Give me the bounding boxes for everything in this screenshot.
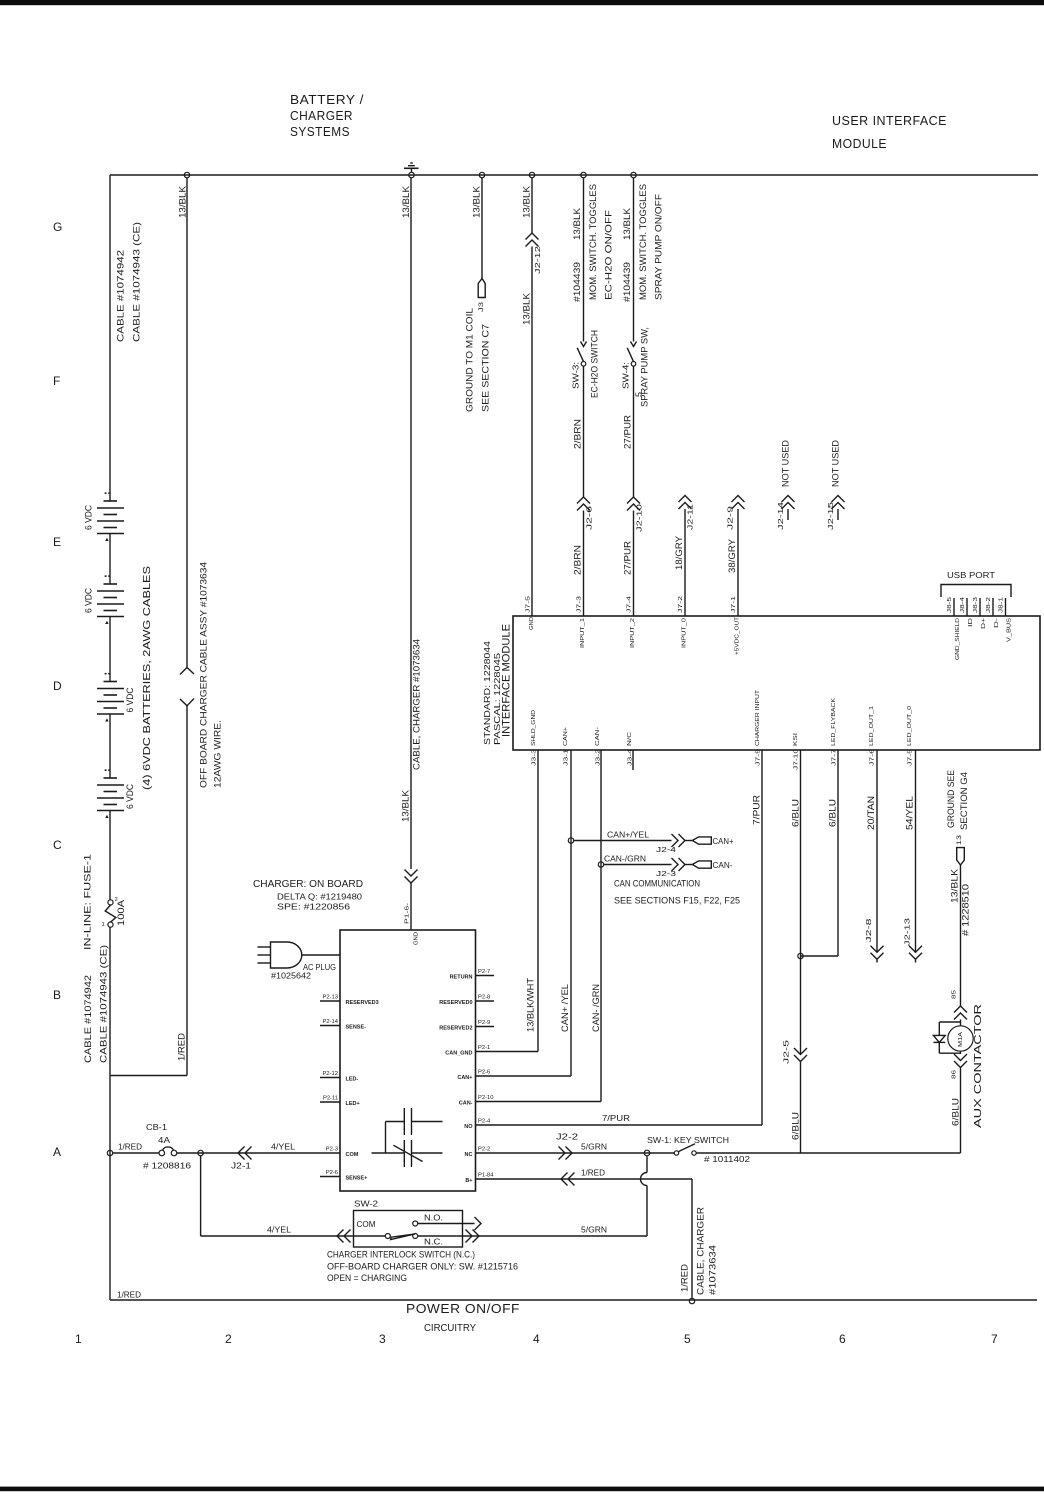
- svg-text:MOM. SWITCH. TOGGLES: MOM. SWITCH. TOGGLES: [588, 184, 598, 300]
- svg-text:GND_SHIELD: GND_SHIELD: [955, 618, 961, 660]
- svg-text:MOM. SWITCH. TOGGLES: MOM. SWITCH. TOGGLES: [638, 184, 648, 300]
- connector chevrons NC out: [466, 1230, 473, 1243]
- wire 20/TAN J7-6 to J2-8: [876, 750, 878, 952]
- connector chevrons J2-9: [732, 496, 745, 503]
- terminal CAN-: [692, 861, 711, 868]
- svg-text:4A: 4A: [158, 1135, 170, 1145]
- svg-text:J7-5: J7-5: [908, 749, 914, 766]
- svg-text:USER INTERFACE: USER INTERFACE: [832, 113, 947, 128]
- svg-text:5/GRN: 5/GRN: [581, 1225, 607, 1235]
- node bus junction x532: [529, 172, 534, 177]
- svg-text:6/BLU: 6/BLU: [791, 1112, 801, 1140]
- svg-text:6/BLU: 6/BLU: [828, 799, 838, 827]
- interface module U1 box: [513, 616, 1040, 750]
- svg-text:13/BLK: 13/BLK: [572, 208, 582, 240]
- wire 6/BLU J7-7 to junction: [837, 750, 839, 956]
- wire 5/GRN SW-2 NC to junction: [418, 1235, 647, 1237]
- svg-text:J2-8: J2-8: [864, 919, 873, 943]
- switch SW-4 fixed contact arrow: [631, 342, 637, 347]
- svg-text:E: E: [53, 535, 61, 549]
- svg-text:1: 1: [102, 922, 105, 928]
- svg-text:P2-8: P2-8: [478, 995, 490, 1001]
- svg-text:J7-2: J7-2: [678, 596, 684, 613]
- svg-text:13: 13: [956, 835, 963, 845]
- connector chevrons down J1 to charger: [405, 870, 418, 877]
- svg-text:2/BRN: 2/BRN: [573, 545, 583, 575]
- pin J8-4 ID: [966, 598, 968, 616]
- switch SW-1 key switch: [674, 1144, 696, 1155]
- wire 13/BLK bus to J2-12: [531, 178, 533, 233]
- svg-text:USB PORT: USB PORT: [947, 570, 995, 580]
- svg-text:NO: NO: [464, 1124, 473, 1130]
- switch SW-3 fixed contact arrow: [581, 342, 587, 347]
- svg-text:1/RED: 1/RED: [117, 1290, 141, 1300]
- svg-text:J2-12: J2-12: [533, 246, 542, 274]
- svg-text:P2-1: P2-1: [478, 1045, 490, 1051]
- svg-text:CAN- /GRN: CAN- /GRN: [591, 984, 601, 1032]
- battery BT3 6 VDC: [97, 673, 135, 722]
- svg-text:J7-4: J7-4: [627, 595, 633, 613]
- wire below switch SW-3: [583, 366, 585, 497]
- switch SW-4 blade: [627, 348, 633, 362]
- connector chevrons J2-3: [672, 858, 679, 871]
- svg-text:IN-LINE: FUSE-1: IN-LINE: FUSE-1: [83, 854, 93, 950]
- node CAN- tap junction: [598, 862, 603, 867]
- node terminal bottom frame: [689, 1298, 694, 1303]
- svg-text:RETURN: RETURN: [450, 975, 473, 981]
- svg-text:LED_OUT_1: LED_OUT_1: [869, 706, 875, 746]
- svg-text:RESERVED2: RESERVED2: [439, 1026, 472, 1032]
- connector chevrons J2-2: [559, 1147, 566, 1160]
- wire CAN+/YEL J3-1 to charger CAN+: [570, 750, 572, 1076]
- node bus junction x583.5: [581, 172, 586, 177]
- terminal CAN+: [692, 837, 711, 844]
- svg-text:# 1011402: # 1011402: [704, 1154, 750, 1164]
- wire 1/RED battery to CB-1: [113, 1152, 159, 1154]
- wire bottom frame: [110, 1299, 1037, 1301]
- svg-text:COM: COM: [357, 1219, 376, 1229]
- pin P2-14 SENSE-: [320, 1025, 340, 1027]
- svg-text:J2-14: J2-14: [776, 502, 785, 530]
- svg-text:INTERFACE MODULE: INTERFACE MODULE: [500, 624, 512, 737]
- svg-text:18/GRY: 18/GRY: [674, 536, 684, 570]
- wire 6/BLU J7-10 down: [800, 750, 802, 1055]
- wire 13/BLK drop to break: [186, 178, 188, 668]
- svg-text:CHARGER INTERLOCK SWITCH (N.C.: CHARGER INTERLOCK SWITCH (N.C.): [327, 1250, 475, 1260]
- svg-text:POWER ON/OFF: POWER ON/OFF: [406, 1301, 520, 1316]
- svg-text:J8-5: J8-5: [947, 597, 953, 613]
- svg-text:P2-11: P2-11: [323, 1096, 338, 1102]
- wire CAN- tap to terminal: [604, 864, 672, 866]
- wire 6/BLU contactor to key switch: [960, 1068, 962, 1154]
- svg-text:J8-1: J8-1: [999, 597, 1005, 613]
- wire CB-1 to charger COM: [177, 1152, 340, 1154]
- svg-text:#1025642: #1025642: [271, 972, 312, 981]
- svg-text:LED_OUT_0: LED_OUT_0: [907, 706, 913, 746]
- svg-text:CAN-/GRN: CAN-/GRN: [604, 853, 646, 863]
- svg-text:MODULE: MODULE: [832, 136, 887, 151]
- node bus junction x187: [184, 172, 189, 177]
- svg-text:RESERVED3: RESERVED3: [346, 1000, 379, 1006]
- svg-text:# 1208816: # 1208816: [143, 1161, 191, 1171]
- node junction 4/YEL drop: [198, 1150, 203, 1155]
- svg-text:13/BLK: 13/BLK: [622, 208, 632, 240]
- svg-text:#104439: #104439: [622, 262, 632, 302]
- svg-text:CIRCUITRY: CIRCUITRY: [424, 1323, 476, 1334]
- wire CAN+ tap to terminal: [574, 840, 672, 842]
- svg-text:P2-13: P2-13: [323, 995, 338, 1001]
- svg-text:CAN-: CAN-: [595, 727, 601, 746]
- svg-text:CAN+: CAN+: [563, 726, 569, 746]
- svg-text:CHARGER: CHARGER: [290, 108, 353, 123]
- svg-text:4/YEL: 4/YEL: [267, 1225, 291, 1235]
- fuse FUSE-1 100A in-line: [102, 897, 127, 928]
- svg-text:ID: ID: [968, 618, 974, 627]
- svg-text:13/BLK: 13/BLK: [522, 186, 532, 218]
- wire 1/RED charger B+ row: [476, 1178, 693, 1180]
- wire left frame / battery string: [109, 175, 111, 501]
- pin P2-11 LED+: [320, 1101, 340, 1103]
- svg-text:J3-3: J3-3: [532, 749, 538, 766]
- svg-text:13/BLK: 13/BLK: [950, 869, 960, 903]
- wire key switch to contactor: [696, 1152, 960, 1154]
- svg-text:DELTA Q: #1219480: DELTA Q: #1219480: [277, 892, 362, 902]
- svg-text:INPUT_2: INPUT_2: [630, 618, 636, 648]
- wire CAN-/GRN J3-2 to charger CAN-: [600, 750, 602, 1102]
- svg-text:J8-2: J8-2: [986, 597, 992, 613]
- connector chevrons pin 86: [960, 1051, 962, 1054]
- svg-text:6 VDC: 6 VDC: [125, 784, 135, 809]
- svg-text:27/PUR: 27/PUR: [623, 414, 633, 449]
- svg-text:J7-1: J7-1: [731, 596, 737, 613]
- svg-text:GROUND SEE: GROUND SEE: [946, 770, 956, 828]
- battery BT2 6 VDC: [84, 575, 124, 624]
- svg-text:J7-7: J7-7: [832, 749, 838, 766]
- circuit breaker CB-1 4A: [159, 1147, 177, 1156]
- svg-text:13/BLK: 13/BLK: [401, 186, 411, 218]
- wire 13/BLK bus to switch SW-4: [633, 178, 635, 342]
- svg-text:G: G: [53, 220, 62, 234]
- svg-text:27/PUR: 27/PUR: [623, 540, 633, 575]
- svg-text:A: A: [53, 1145, 61, 1159]
- node battery terminal A-row: [107, 1150, 112, 1155]
- svg-text:2/BRN: 2/BRN: [573, 419, 583, 449]
- svg-text:CAN+/YEL: CAN+/YEL: [607, 830, 649, 840]
- connector chevrons J2-11: [679, 496, 692, 503]
- svg-text:+5VDC_OUT: +5VDC_OUT: [735, 616, 741, 655]
- svg-text:12AWG WIRE.: 12AWG WIRE.: [213, 720, 223, 788]
- svg-text:P2-6: P2-6: [478, 1070, 490, 1076]
- svg-text:7: 7: [991, 1332, 998, 1346]
- svg-text:6/BLU: 6/BLU: [951, 1098, 961, 1126]
- wire 1/RED drop to bottom frame: [691, 1179, 693, 1298]
- USB port bracket: [941, 585, 1011, 598]
- connector J2-14 not used: [782, 496, 795, 503]
- cable break connector symbol: [180, 668, 194, 675]
- top border bar: [0, 0, 1044, 5]
- wire drop to interlock: [200, 1156, 202, 1236]
- svg-text:13/BLK: 13/BLK: [401, 790, 411, 822]
- svg-text:CB-1: CB-1: [146, 1122, 167, 1132]
- svg-text:CAN+: CAN+: [713, 836, 734, 846]
- svg-text:20/TAN: 20/TAN: [866, 796, 876, 830]
- svg-text:NC: NC: [465, 1152, 473, 1158]
- svg-text:1/RED: 1/RED: [680, 1263, 690, 1292]
- wire 13/BLK to charger GND: [410, 178, 412, 869]
- contactor coil M1A: [948, 1026, 973, 1051]
- svg-text:NOT USED: NOT USED: [831, 439, 841, 487]
- wire 7/PUR J7-9 to charger NO: [761, 750, 763, 1125]
- svg-text:OFF-BOARD CHARGER ONLY: SW. #: OFF-BOARD CHARGER ONLY: SW. #1215716: [327, 1262, 518, 1272]
- svg-text:INPUT_1: INPUT_1: [580, 618, 586, 648]
- svg-text:13/BLK/WHT: 13/BLK/WHT: [526, 977, 536, 1032]
- svg-text:CABLE #1074943 (CE): CABLE #1074943 (CE): [132, 222, 142, 342]
- svg-text:(4) 6VDC BATTERIES, 2AWG CABLE: (4) 6VDC BATTERIES, 2AWG CABLES: [142, 566, 153, 790]
- svg-text:5: 5: [634, 392, 644, 397]
- svg-text:2: 2: [225, 1332, 232, 1346]
- svg-text:#104439: #104439: [572, 262, 582, 302]
- switch SW-2 NO contact: [413, 1221, 418, 1226]
- svg-text:J8-3: J8-3: [973, 597, 979, 613]
- connector chevrons 4/YEL interlock: [337, 1230, 344, 1243]
- wire top bus 13/BLK: [110, 174, 1038, 176]
- wire 1/RED lower segment: [186, 706, 188, 1076]
- svg-text:P2-4: P2-4: [478, 1119, 491, 1125]
- node bus junction x482: [479, 172, 484, 177]
- svg-text:6: 6: [839, 1332, 846, 1346]
- svg-text:NOT USED: NOT USED: [781, 439, 791, 487]
- svg-text:100A: 100A: [116, 900, 126, 926]
- wire 54/YEL J7-5 to J2-13: [915, 750, 917, 952]
- svg-text:GND: GND: [529, 617, 535, 630]
- connector chevrons J2-12: [526, 233, 539, 240]
- svg-text:SECTION G4: SECTION G4: [959, 772, 969, 830]
- svg-text:B+: B+: [465, 1178, 472, 1184]
- svg-text:J2-15: J2-15: [826, 502, 835, 530]
- svg-text:J2-13: J2-13: [903, 918, 912, 946]
- node CAN+ tap junction: [568, 838, 573, 843]
- svg-text:6 VDC: 6 VDC: [84, 505, 94, 530]
- svg-text:SPE: #1220856: SPE: #1220856: [277, 902, 350, 912]
- svg-text:J2-5: J2-5: [782, 1040, 791, 1064]
- svg-text:D+: D+: [981, 617, 987, 629]
- svg-text:J2-10: J2-10: [635, 504, 644, 532]
- svg-text:7/PUR: 7/PUR: [752, 794, 762, 825]
- svg-text:J7-5: J7-5: [526, 596, 532, 613]
- svg-text:P1-6-: P1-6-: [405, 903, 411, 924]
- svg-text:J2-1: J2-1: [231, 1161, 251, 1171]
- svg-text:CHARGER INPUT: CHARGER INPUT: [755, 689, 761, 746]
- svg-text:SHLD_GND: SHLD_GND: [531, 710, 537, 746]
- svg-text:SW-2: SW-2: [354, 1199, 378, 1209]
- svg-text:13/BLK: 13/BLK: [178, 186, 188, 218]
- svg-text:EC-H2O SWITCH: EC-H2O SWITCH: [590, 330, 600, 398]
- svg-text:CAN_GND: CAN_GND: [445, 1051, 472, 1057]
- node junction with J7-7 link: [798, 953, 803, 958]
- svg-text:M1A: M1A: [958, 1032, 964, 1047]
- svg-text:SYSTEMS: SYSTEMS: [290, 124, 350, 139]
- svg-text:RESERVED0: RESERVED0: [439, 1000, 472, 1006]
- bottom border bar: [0, 1487, 1044, 1492]
- svg-text:SW-4:: SW-4:: [621, 362, 631, 389]
- svg-text:86: 86: [952, 1070, 958, 1079]
- svg-text:LED-: LED-: [346, 1077, 359, 1083]
- wire 5/GRN charger NC to key switch: [476, 1152, 675, 1154]
- svg-text:6/BLU: 6/BLU: [791, 799, 801, 827]
- svg-text:J7-9: J7-9: [756, 749, 762, 766]
- wire 38/GRY module to J2-9: [737, 509, 739, 616]
- svg-text:P2-14: P2-14: [323, 1019, 339, 1025]
- switch SW-2 contacts: [385, 1234, 417, 1240]
- svg-text:BATTERY /: BATTERY /: [290, 92, 364, 107]
- svg-text:P2-6: P2-6: [326, 1170, 338, 1176]
- pin J8-3 D+: [979, 598, 981, 616]
- pin P2-8 RESERVED0: [476, 1000, 495, 1002]
- svg-text:J7-3: J7-3: [577, 596, 583, 613]
- switch SW-3 blade: [577, 348, 583, 362]
- svg-text:N.O.: N.O.: [424, 1213, 443, 1223]
- wire 18/GRY module to J2-11: [684, 509, 686, 616]
- svg-text:CABLE #1074943 (CE): CABLE #1074943 (CE): [99, 945, 109, 1063]
- svg-text:P2-3: P2-3: [326, 1147, 338, 1153]
- svg-text:J3-1: J3-1: [564, 749, 570, 766]
- svg-text:P2-10: P2-10: [478, 1095, 493, 1101]
- pin J8-1 V_BUS: [1005, 598, 1007, 616]
- svg-text:CAN-: CAN-: [713, 860, 733, 870]
- diode D1 flyback clamp: [933, 1022, 960, 1053]
- charger U2 box on-board: [340, 930, 476, 1191]
- switch SW-2 charger interlock box: [354, 1211, 463, 1248]
- pin P2-6 SENSE+: [320, 1176, 340, 1178]
- svg-text:GND: GND: [414, 932, 420, 945]
- node bus junction x633.5: [631, 172, 636, 177]
- wire 5/GRN junction to interlock with hop: [646, 1156, 648, 1172]
- svg-text:CHARGER: ON BOARD: CHARGER: ON BOARD: [253, 879, 363, 890]
- connector chevrons J2-5: [794, 1048, 807, 1055]
- svg-text:J7-6: J7-6: [870, 749, 876, 766]
- wire 4/YEL to SW-2 COM: [201, 1235, 386, 1237]
- relay contact NC inside charger: [372, 1140, 443, 1167]
- svg-text:COM: COM: [346, 1152, 359, 1158]
- svg-text:CABLE, CHARGER #1073634: CABLE, CHARGER #1073634: [412, 639, 422, 770]
- svg-text:P2-2: P2-2: [478, 1147, 490, 1153]
- svg-text:#1073634: #1073634: [708, 1245, 718, 1295]
- svg-text:OPEN = CHARGING: OPEN = CHARGING: [327, 1273, 407, 1283]
- svg-text:CABLE #1074942: CABLE #1074942: [116, 250, 126, 342]
- svg-text:13/BLK: 13/BLK: [522, 293, 532, 325]
- svg-text:SEE SECTIONS F15, F22, F25: SEE SECTIONS F15, F22, F25: [614, 896, 740, 906]
- connector chevrons B+ 1/RED: [561, 1173, 568, 1186]
- svg-text:CAN-: CAN-: [459, 1101, 473, 1107]
- svg-text:4/YEL: 4/YEL: [271, 1142, 295, 1152]
- svg-text:1/RED: 1/RED: [118, 1142, 142, 1152]
- node bus junction x411: [409, 172, 414, 177]
- svg-text:P2-7: P2-7: [478, 969, 490, 975]
- ground symbol above bus: [404, 163, 419, 172]
- svg-text:J2-4: J2-4: [656, 845, 676, 854]
- svg-text:D: D: [53, 679, 62, 693]
- AC plug P1: [258, 942, 341, 968]
- svg-text:EC-H2O ON/OFF: EC-H2O ON/OFF: [604, 209, 614, 300]
- svg-text:KSI: KSI: [793, 732, 799, 746]
- wire 13/BLK/WHT J3-3 to charger CAN_GND: [537, 750, 539, 1052]
- node junction key switch feed: [644, 1150, 650, 1156]
- svg-text:38/GRY: 38/GRY: [727, 539, 737, 573]
- svg-text:SW-3:: SW-3:: [571, 362, 581, 389]
- svg-text:SENSE+: SENSE+: [346, 1176, 368, 1182]
- pin P2-12 LED-: [320, 1077, 340, 1079]
- svg-text:SW-1: KEY SWITCH: SW-1: KEY SWITCH: [647, 1135, 729, 1145]
- pin J8-5 GND_SHIELD: [953, 598, 955, 616]
- wire 13/BLK to M1 coil flag: [481, 178, 483, 279]
- svg-text:CAN+ /YEL: CAN+ /YEL: [560, 984, 570, 1032]
- svg-text:J2-9: J2-9: [726, 506, 735, 530]
- pin P2-9 RESERVED2: [476, 1026, 495, 1028]
- wire 13/BLK bus to switch SW-3: [583, 178, 585, 342]
- connector chevrons J2-4: [672, 834, 679, 847]
- svg-text:B: B: [53, 988, 61, 1002]
- svg-text:1/RED: 1/RED: [581, 1168, 605, 1178]
- svg-text:1: 1: [75, 1332, 82, 1346]
- svg-text:P2-12: P2-12: [323, 1071, 338, 1077]
- svg-text:3: 3: [379, 1332, 386, 1346]
- svg-text:CAN COMMUNICATION: CAN COMMUNICATION: [614, 879, 700, 889]
- svg-text:5: 5: [684, 1332, 691, 1346]
- svg-text:GROUND TO M1 COIL: GROUND TO M1 COIL: [465, 308, 475, 412]
- svg-text:1/RED: 1/RED: [177, 1032, 187, 1061]
- connector chevrons below SW-4: [627, 497, 640, 504]
- svg-text:7/PUR: 7/PUR: [602, 1113, 630, 1123]
- svg-text:J2-6: J2-6: [585, 506, 594, 530]
- switch SW-3 pivot contact: [581, 362, 586, 367]
- svg-text:J3-4: J3-4: [628, 748, 634, 766]
- wire below switch SW-4: [633, 366, 635, 497]
- svg-text:5/GRN: 5/GRN: [581, 1142, 607, 1152]
- pin P2-7 RETURN: [476, 975, 495, 977]
- svg-text:LED+: LED+: [346, 1101, 360, 1107]
- svg-text:F: F: [53, 374, 60, 388]
- svg-text:J2-11: J2-11: [686, 504, 695, 530]
- svg-text:INPUT_0: INPUT_0: [682, 618, 688, 648]
- svg-text:SPRAY PUMP ON/OFF: SPRAY PUMP ON/OFF: [654, 193, 664, 300]
- svg-text:CABLE #1074942: CABLE #1074942: [83, 975, 93, 1063]
- svg-text:# 1228510: # 1228510: [961, 884, 971, 936]
- svg-text:J3: J3: [478, 302, 485, 312]
- svg-text:CAN+: CAN+: [457, 1075, 472, 1081]
- connector chevrons J2-1: [238, 1147, 245, 1160]
- terminal flag 13 ground G4: [957, 848, 965, 865]
- svg-text:J7-10: J7-10: [794, 749, 800, 770]
- connector chevrons below SW-3: [577, 497, 590, 504]
- svg-text:6 VDC: 6 VDC: [84, 588, 94, 613]
- battery BT1 6 VDC: [84, 492, 124, 541]
- terminal flag J3 ground to M1 coil: [478, 279, 485, 298]
- svg-text:85: 85: [952, 990, 958, 999]
- connector J2-15 not used: [832, 496, 845, 503]
- svg-text:SENSE-: SENSE-: [346, 1025, 367, 1031]
- svg-text:J2-2: J2-2: [556, 1132, 578, 1142]
- wire 13/BLK flag to contactor: [960, 865, 962, 1006]
- svg-text:CABLE, CHARGER: CABLE, CHARGER: [696, 1206, 706, 1295]
- relay contact NO inside charger: [386, 1108, 443, 1153]
- svg-text:SEE SECTION C7: SEE SECTION C7: [481, 324, 491, 412]
- svg-text:PASCAL: 1228045: PASCAL: 1228045: [493, 652, 502, 745]
- svg-text:6 VDC: 6 VDC: [125, 687, 135, 712]
- svg-text:4: 4: [533, 1332, 540, 1346]
- connector chevrons pin 85: [954, 1006, 967, 1013]
- svg-text:V_BUS: V_BUS: [1007, 618, 1013, 642]
- battery BT4 6 VDC: [97, 769, 135, 818]
